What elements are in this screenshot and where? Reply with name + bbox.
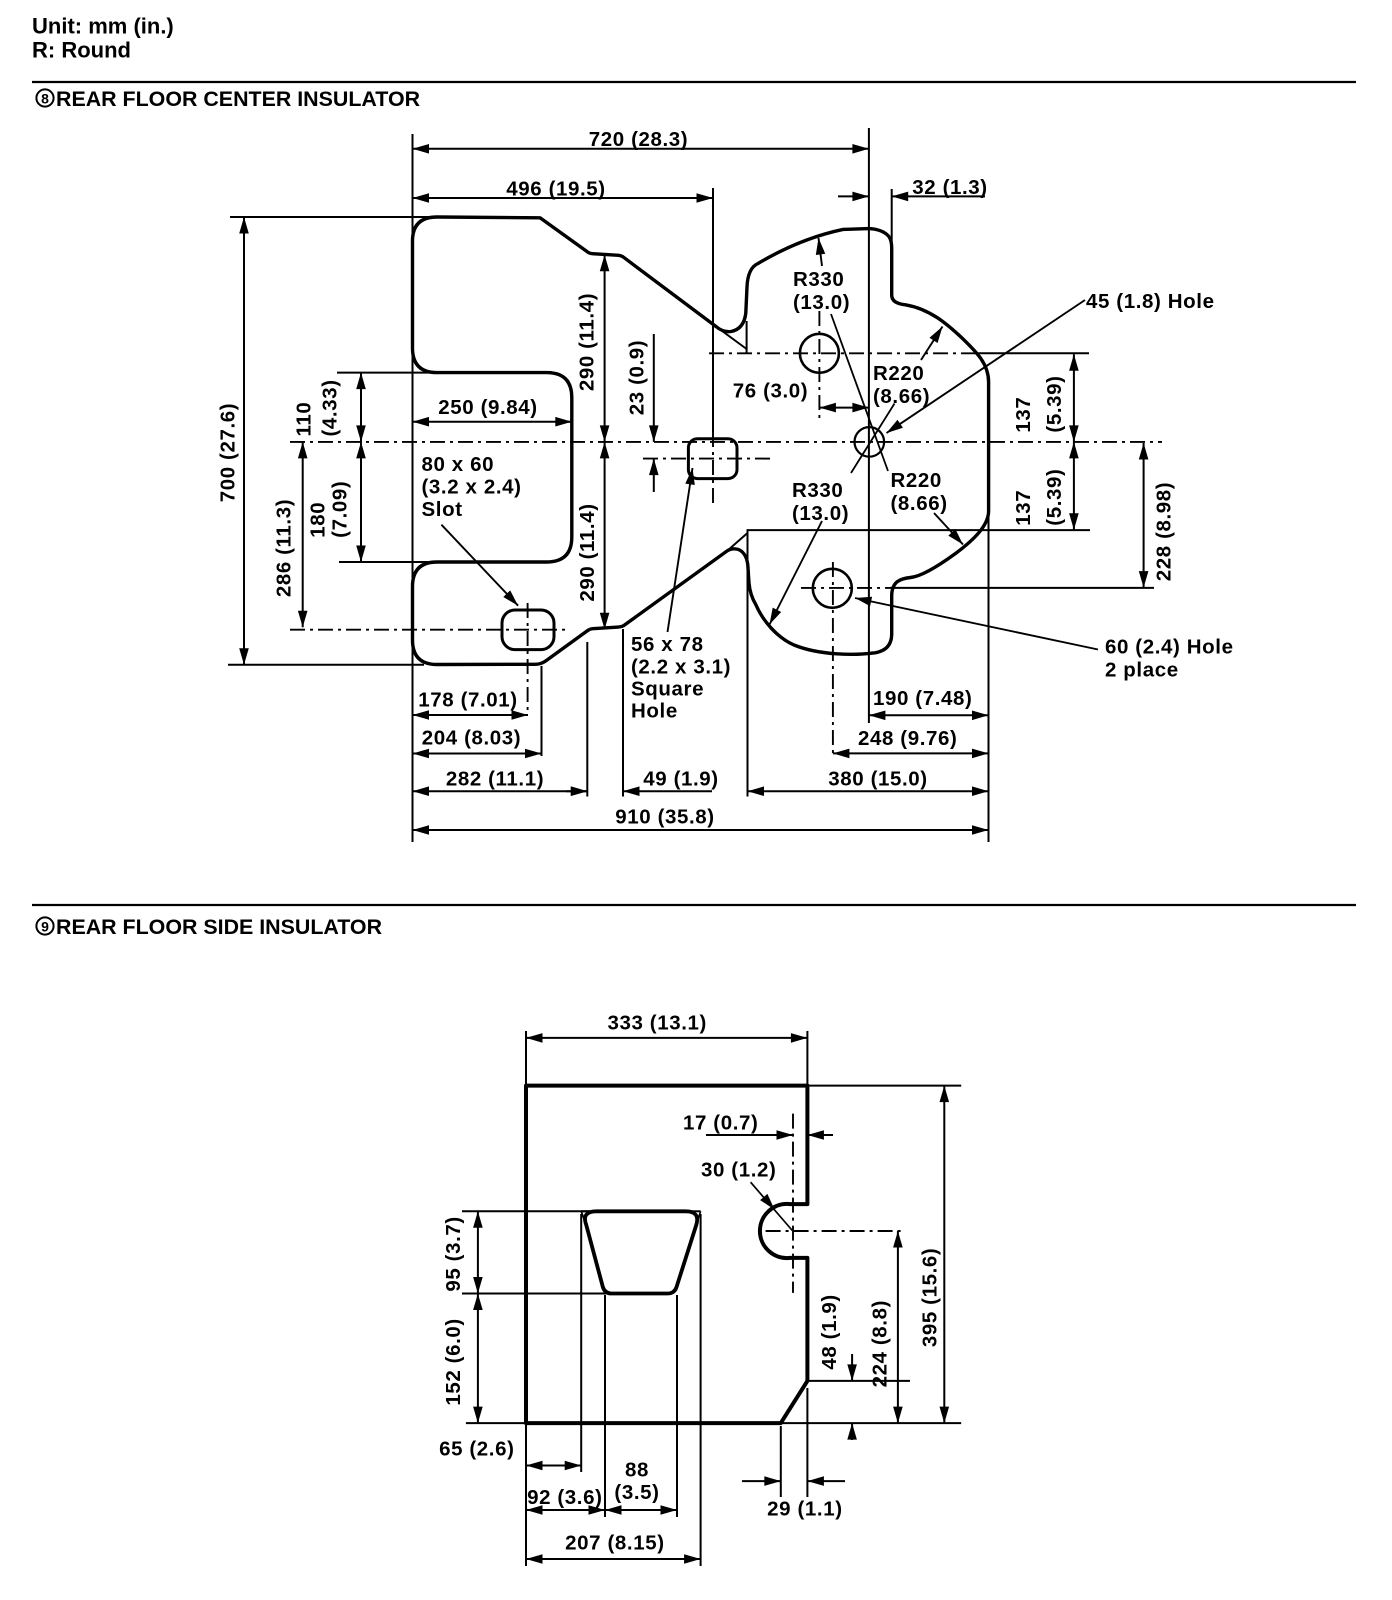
svg-text:137: 137 [1012, 397, 1035, 433]
svg-text:56 x 78: 56 x 78 [631, 633, 704, 656]
svg-text:700 (27.6): 700 (27.6) [217, 403, 240, 502]
svg-text:395 (15.6): 395 (15.6) [918, 1248, 941, 1347]
svg-text:Square: Square [631, 678, 704, 701]
svg-text:720 (28.3): 720 (28.3) [589, 128, 688, 151]
svg-text:R: Round: R: Round [32, 38, 131, 63]
svg-text:(2.2 x 3.1): (2.2 x 3.1) [631, 656, 731, 679]
svg-text:R330: R330 [793, 268, 844, 291]
svg-text:204 (8.03): 204 (8.03) [422, 727, 521, 750]
svg-text:250 (9.84): 250 (9.84) [438, 396, 537, 419]
svg-text:333 (13.1): 333 (13.1) [607, 1012, 706, 1035]
svg-text:496 (19.5): 496 (19.5) [506, 178, 605, 201]
svg-text:45 (1.8) Hole: 45 (1.8) Hole [1086, 290, 1215, 313]
svg-text:(4.33): (4.33) [318, 379, 341, 436]
svg-text:R330: R330 [792, 479, 843, 502]
svg-text:152 (6.0): 152 (6.0) [442, 1318, 465, 1405]
svg-text:95 (3.7): 95 (3.7) [442, 1216, 465, 1291]
svg-text:(3.5): (3.5) [614, 1481, 659, 1504]
svg-text:29 (1.1): 29 (1.1) [767, 1498, 842, 1521]
svg-text:R220: R220 [891, 469, 942, 492]
svg-text:17 (0.7): 17 (0.7) [683, 1112, 758, 1135]
svg-text:60 (2.4) Hole: 60 (2.4) Hole [1105, 636, 1234, 659]
svg-text:(13.0): (13.0) [792, 502, 849, 525]
svg-text:(8.66): (8.66) [891, 492, 948, 515]
svg-text:137: 137 [1012, 490, 1035, 526]
svg-text:88: 88 [625, 1459, 649, 1482]
svg-text:910 (35.8): 910 (35.8) [615, 806, 714, 829]
svg-text:2 place: 2 place [1105, 659, 1179, 682]
svg-text:8: 8 [41, 91, 49, 107]
svg-text:(8.66): (8.66) [873, 385, 930, 408]
svg-text:Hole: Hole [631, 700, 678, 723]
svg-text:48 (1.9): 48 (1.9) [818, 1294, 841, 1369]
svg-text:290 (11.4): 290 (11.4) [575, 293, 598, 391]
svg-text:207 (8.15): 207 (8.15) [565, 1532, 664, 1555]
svg-text:49 (1.9): 49 (1.9) [643, 768, 718, 791]
svg-text:248 (9.76): 248 (9.76) [858, 727, 957, 750]
svg-text:REAR FLOOR SIDE INSULATOR: REAR FLOOR SIDE INSULATOR [56, 915, 383, 939]
svg-text:Unit: mm (in.): Unit: mm (in.) [32, 14, 174, 39]
svg-text:286 (11.3): 286 (11.3) [273, 499, 296, 597]
svg-text:110: 110 [292, 402, 315, 437]
svg-text:380 (15.0): 380 (15.0) [828, 768, 927, 791]
svg-text:228 (8.98): 228 (8.98) [1152, 482, 1175, 581]
svg-text:R220: R220 [873, 362, 924, 385]
svg-text:30 (1.2): 30 (1.2) [701, 1158, 776, 1181]
svg-text:REAR FLOOR CENTER INSULATOR: REAR FLOOR CENTER INSULATOR [56, 87, 421, 111]
svg-text:92 (3.6): 92 (3.6) [527, 1486, 602, 1509]
svg-text:282 (11.1): 282 (11.1) [446, 768, 544, 791]
svg-text:23 (0.9): 23 (0.9) [625, 340, 648, 415]
svg-text:(5.39): (5.39) [1043, 469, 1066, 526]
svg-text:(7.09): (7.09) [329, 481, 352, 538]
svg-text:Slot: Slot [422, 498, 463, 521]
svg-text:32 (1.3): 32 (1.3) [912, 176, 987, 199]
svg-text:224 (8.8): 224 (8.8) [868, 1300, 891, 1387]
svg-text:190 (7.48): 190 (7.48) [873, 687, 972, 710]
svg-text:80 x 60: 80 x 60 [422, 453, 495, 476]
svg-text:290 (11.4): 290 (11.4) [576, 503, 599, 601]
svg-text:9: 9 [41, 919, 49, 935]
svg-text:178 (7.01): 178 (7.01) [418, 689, 517, 712]
svg-text:65 (2.6): 65 (2.6) [439, 1438, 514, 1461]
svg-text:(13.0): (13.0) [793, 291, 850, 314]
svg-text:(3.2 x 2.4): (3.2 x 2.4) [422, 476, 522, 499]
svg-text:(5.39): (5.39) [1043, 375, 1066, 432]
svg-text:76 (3.0): 76 (3.0) [733, 380, 808, 403]
svg-text:180: 180 [306, 502, 329, 538]
